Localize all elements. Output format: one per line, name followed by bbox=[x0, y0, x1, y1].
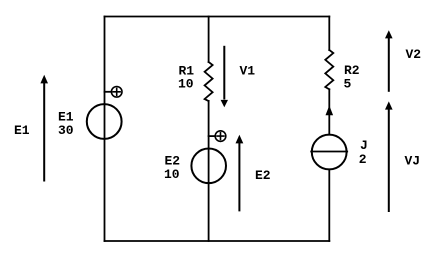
wire bottom edge bbox=[105, 240, 330, 242]
polarity marker E2 bbox=[209, 131, 226, 142]
current source J bbox=[311, 135, 347, 170]
voltage source E1 bbox=[87, 104, 122, 139]
current direction arrow of J bbox=[326, 106, 334, 116]
arrow VJ (up, right) bbox=[385, 101, 393, 212]
wire top edge bbox=[105, 16, 330, 18]
wire middle lower segment bbox=[208, 101, 210, 241]
svg-text:V1: V1 bbox=[240, 63, 256, 78]
svg-text:E1: E1 bbox=[14, 123, 30, 138]
arrow V1 (down) bbox=[221, 46, 228, 107]
svg-text:5: 5 bbox=[344, 77, 352, 92]
svg-text:10: 10 bbox=[178, 77, 194, 92]
svg-text:30: 30 bbox=[58, 123, 74, 138]
arrow E2 (up, mid) bbox=[236, 135, 244, 212]
svg-text:E2: E2 bbox=[255, 168, 271, 183]
wire right segment R2 to J bbox=[328, 89, 330, 133]
svg-text:V2: V2 bbox=[406, 47, 422, 62]
wire right segment J to bottom bbox=[328, 170, 330, 241]
wire left edge bbox=[104, 17, 106, 242]
svg-text:2: 2 bbox=[359, 152, 367, 167]
wire right edge upper segment bbox=[328, 17, 330, 51]
arrow V2 (up, right) bbox=[385, 30, 393, 92]
wire middle upper segment bbox=[208, 17, 210, 63]
svg-text:10: 10 bbox=[164, 167, 180, 182]
voltage source E2 bbox=[191, 149, 226, 184]
svg-text:VJ: VJ bbox=[405, 154, 421, 169]
resistor R1 bbox=[205, 62, 213, 101]
svg-text:R2: R2 bbox=[344, 63, 360, 78]
arrow E1 (left) bbox=[40, 75, 48, 182]
polarity marker E1 bbox=[105, 87, 122, 98]
resistor R2 bbox=[325, 50, 333, 89]
